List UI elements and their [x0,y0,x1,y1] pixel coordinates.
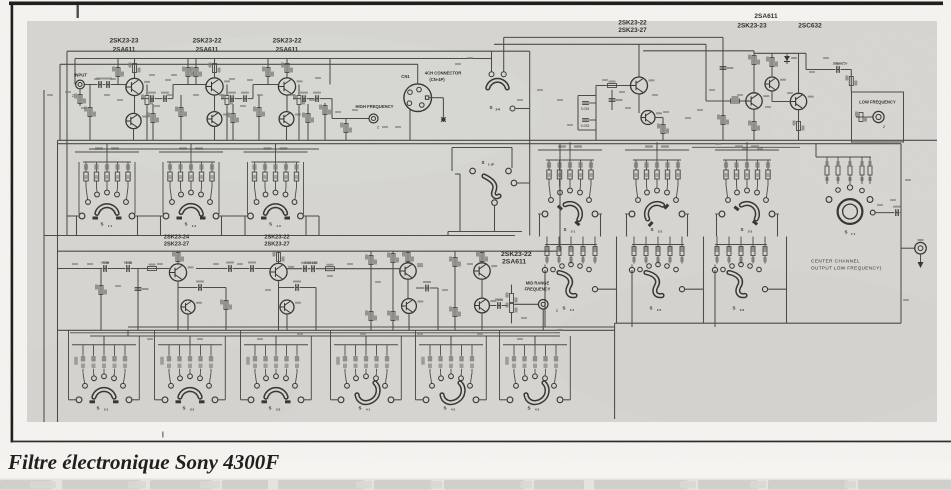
wire T7 drain [753,51,755,93]
wire bank chain link 2 [220,215,246,217]
capacitor C8 [313,92,321,102]
resistor R27 [845,76,857,86]
wire bank chain drop [318,216,320,236]
label Zout hf [377,126,380,130]
wire signal row1 c [253,84,278,86]
border frame left line [11,2,14,443]
transistor Q12 2SK23-24 [169,264,193,281]
wire bank feed [746,144,748,150]
wire [267,59,269,85]
switch S2-1 rotor feet [558,206,580,225]
label 2SK23-23 [110,38,139,45]
wire bankB out [768,288,787,290]
wire inter-row drop L [539,214,541,237]
resistor R13 [253,107,265,117]
rotary switch bank S4-2 [419,345,483,403]
switch S2-2 rotor [643,199,663,220]
border frame top line [9,2,943,6]
label S3-1 sub [104,408,109,412]
transistor Q7 2SK23-22 [631,77,655,94]
svg-text:2SA611: 2SA611 [754,13,778,20]
label S2-3 [740,227,743,232]
wire inter-row drop R [600,214,602,237]
wire mid gate line 2 [196,268,270,270]
resistor R22 [731,96,740,103]
wire bankB riser R [786,237,788,324]
wire bankB riser R [703,237,705,324]
wire signal row1 a [85,84,127,86]
wire bankC outer left [415,330,417,400]
wire ring bracket [816,156,871,158]
wire T7 source [753,109,755,140]
capacitor C14 [226,262,234,272]
switch S1-3 rotor [265,206,285,214]
node terminal dot [441,117,446,122]
wire S1-1P drop [494,205,496,231]
terminal B arrow [918,239,924,268]
label 2SA611 right [754,13,778,20]
resistor R40 [402,252,414,262]
label S7-1 sub [851,232,856,236]
wire [315,288,317,331]
switch S2-3 rotor feet [734,207,757,225]
wire [850,70,852,93]
capacitor C13 [196,281,204,291]
resistor R10 [209,63,221,73]
capacitor C20 [495,299,503,309]
wire [805,53,807,69]
wire [416,399,424,401]
wire bank feed [656,144,658,150]
wire T9 collector [798,53,800,93]
wire [187,59,189,85]
wire F1 drain [638,44,640,77]
wire inter-row drop L [626,214,628,237]
switch S1-1P rotor [484,176,499,197]
resistor R34 [273,252,285,262]
wire bankB riser R [616,237,618,324]
switch S7-1 contacts [826,185,873,203]
capacitor C1 [96,78,104,88]
resistor R25 [748,121,760,131]
label 2SC632 [798,23,822,30]
resistor R31 [95,285,107,295]
wire left section vertical [66,51,68,235]
capacitor C3 [148,92,156,102]
wire bank feed [275,144,277,152]
label 0.015 [581,107,590,111]
label 2SA611 (2) [196,47,219,54]
wire [100,269,102,331]
label 4CH CONNECTOR [425,71,461,76]
wire bank drop R [221,216,223,236]
wire ring out [875,212,901,214]
wire bankC outer right [400,336,402,400]
switch S4-1 rotor [357,383,378,403]
resistor R35 [326,264,335,271]
wire [662,118,664,141]
transistor Q19 2SA611 [475,298,497,313]
wire bankC feed [275,336,277,345]
wire left long vertical B [57,140,59,422]
wire S1-4 feed a [491,51,493,72]
transistor Q1 2SK23-23 [126,78,150,95]
label S2-5 [649,306,652,311]
rotary switch bank S4-3 [503,345,567,403]
wire S1-4 feed b [503,37,505,71]
label 2SK23-24 [164,235,190,241]
label 2SK23-22 (3) [273,38,302,45]
switch S4-3 rotor [526,383,547,403]
switch S1-2 rotor [181,206,201,215]
wire [241,399,249,401]
resistor R23 [748,55,760,65]
resistor R21 [717,115,729,125]
wire [127,330,129,336]
caption Filtre electronique Sony 4300F [7,450,279,474]
wire T9 emitter [798,110,800,141]
resistor R9 [190,67,202,77]
wire T7 gate [706,100,746,102]
wire Q3-Q4 [214,95,216,112]
wire [370,251,372,330]
label S3-1 [96,405,99,410]
wire [517,182,530,184]
wire [331,399,339,401]
diode D1 [784,53,797,64]
switch S1-2 rotor feet [177,217,206,220]
label S2-3 sub [748,229,753,233]
label MID RANGE [526,281,550,286]
rotary switch bank S2-3 [715,142,779,217]
wire bankC feed [189,336,191,345]
resistor R39 [387,311,399,321]
switch S7-1 output contact [870,210,875,215]
wire bank feed [190,144,192,152]
resistor R30 [148,264,157,271]
wire [146,105,148,140]
resistor R12 [227,113,239,123]
label S7-1 [844,230,847,235]
high frequency jack J2 [369,114,378,123]
wire bankC feed [365,336,367,345]
wire aux bus right [692,146,800,148]
wire [447,232,449,236]
wire bankC outer right [569,336,571,400]
transistor Q15 2SK23-27 [280,300,301,314]
resistor R3 [112,67,124,77]
label CN-4P [429,77,445,82]
resistor R24 [766,57,778,67]
resistor R2 [84,107,96,117]
resistor R43 [476,252,488,262]
wire [454,251,456,330]
label 1.2k [126,261,133,265]
low frequency jack J3 [873,111,884,122]
transistor Q10 2SK23-23 [765,77,786,91]
capacitor C15 [248,262,256,272]
label S4-2 [443,405,446,410]
transistor Q14 2SK23-22 [270,263,294,280]
wire cap loop bottom [578,129,596,131]
wire top rail right [504,36,723,38]
wire drain stage2 [214,59,216,78]
wire bias drop [89,85,91,141]
wire coupling row 2 [221,98,253,100]
wire left long vertical A [43,90,45,422]
rotary switch bank S1-1 [75,144,139,219]
wire mid column vertical [529,51,531,235]
paper grain overlay [27,21,937,422]
wire S1-4 out [515,108,530,110]
wire [611,90,613,110]
wire M6 emitter [408,313,410,330]
wire Q5-Q6 [286,95,288,112]
resistor R17 [302,113,314,123]
capacitor C11 [124,262,132,272]
label S1-2 sub [192,224,197,228]
wire to HF jack [331,99,333,119]
wire [479,399,486,401]
wire bankC outer right [138,336,140,400]
label 2SK23-22 mid [618,20,647,27]
wire M3 drain [278,251,280,264]
wire M8 emitter [481,313,483,330]
component value labels (illegible smudges) [47,57,911,340]
input jack J1 [76,80,85,89]
wire bankC outer right [224,336,226,400]
wire bankC feed [450,336,452,345]
label S2-1 [563,227,566,232]
label S4-2 sub [451,408,456,412]
wire M7 drain [481,251,483,263]
capacitor out [893,206,901,216]
wire [511,148,513,169]
resistor R33 [220,300,232,310]
wire right long vertical [900,144,902,324]
wire bank feed [106,144,108,152]
wire [137,269,139,331]
switch S2-6 rotor [729,273,745,296]
label OUTPUT LOW FREQ [811,266,882,271]
wire drain stage1 [134,59,136,79]
label 2SK23-22 midstage [501,251,532,258]
border frame bottom line [11,441,951,443]
wire bankC feed [103,336,105,345]
wire [226,105,228,140]
wire second rail right [494,43,706,45]
switch S3-3 rotor feet [262,400,291,403]
wire S1-1P loop top [452,147,512,149]
capacitor C4 [161,92,169,102]
resistor R28 [855,112,867,122]
wire T8 emitter [771,91,773,102]
label S1-3 sub [276,224,281,228]
wire bankC outer left [499,330,501,400]
wire [225,288,227,331]
resistor input Zin [74,94,86,104]
wire mid-right vertical [559,144,561,252]
switch S1-1P contacts [470,168,517,205]
label 2SK23-27 [164,241,189,247]
switch S1-4 contacts [489,72,506,77]
wire [258,95,260,140]
transistor Q13 2SK23-27 [181,300,202,314]
wire [298,85,300,96]
wire bankB drop L [631,270,633,327]
transistor Q4 2SA611 [207,112,229,127]
wire [226,85,228,96]
wire Q1-Q2 [134,96,136,114]
transistor Q2 2SA611 [126,113,148,128]
label 3.3u 25v [833,62,848,66]
label S2-4 [562,306,565,311]
switch S2-2 rotor feet [649,205,668,227]
wire [563,399,570,401]
center channel jack J4 [915,242,927,254]
wire to LF jack [856,116,873,118]
transistor Q6 2SA611 [279,112,301,127]
resistor array S7-1 [825,157,872,184]
capacitor C12 [135,288,149,290]
capacitor 3.3u [834,63,842,73]
wire bank drop L [160,216,162,236]
wire lower aux bus [90,335,560,337]
label 2SK23-22 (2) [193,38,222,45]
switch S2-5 rotor [646,273,662,296]
wire left vertical 2 [59,64,61,140]
label 2SK23-23 right [737,23,767,30]
label S1-4 [489,105,492,110]
wire F2 out [655,117,663,119]
wire Q2 emitter [133,129,135,141]
wire M5 source [407,279,409,298]
label 2SA611 (3) [276,47,299,54]
wire [455,173,460,175]
label HIGH FREQUENCY [356,104,394,109]
label 2SK23-27 mid [618,27,647,34]
label 2SA611 midstage [502,259,526,266]
transistor Q8 2SK23-27 [641,111,662,125]
wire bottom right drop [614,323,616,419]
wire to center jack [901,247,915,249]
wire [324,103,326,140]
wire [195,59,197,85]
wire [451,148,453,172]
label S2-2 sub [658,229,663,233]
resistor R14 [262,67,274,77]
wire [511,285,513,294]
wire mid gate line 3 [287,268,400,270]
wire [459,174,461,232]
label S1-3 [269,222,272,227]
wire [152,104,154,140]
wire bank feed [569,144,571,150]
wire [329,59,331,85]
wire connector stub [442,98,444,117]
resistor R20 [657,124,669,134]
wire [298,105,300,140]
resistor R38 [387,253,399,263]
wire M4 emitter [286,314,288,330]
wire inter-row drop R [777,214,779,237]
wire [394,399,401,401]
wire bankB out [598,288,617,290]
label S2-5 sub [657,308,662,312]
wire [69,399,77,401]
label S1-1P sub [488,162,494,166]
label 0.033 [581,124,590,128]
wire mid out [489,305,508,307]
rotary switch bank S1-3 [244,144,308,219]
switch S4-2 rotor [442,383,463,403]
label S2-6 [732,306,735,311]
capacitor C2 [104,78,112,88]
wire mid bottom bus 1 [128,326,615,328]
rotary switch bank S2-2 [625,142,689,217]
resistor R7 [175,107,187,117]
resistor R11 [221,95,233,105]
transistor Q5 2SK23-22 [278,78,302,95]
label 2SK23-22 mid2 [264,235,289,241]
resistor R18 [319,105,331,115]
wire main bus lower [58,143,902,145]
wire [180,95,182,140]
transistor Q11 2SC632 [790,93,813,109]
registration tick [77,5,79,18]
rotary switch bank S2-5 [629,237,684,273]
switch S1-4 rotor [488,80,507,88]
resistor R6 [147,113,159,123]
switch S2-5 output contact [679,287,684,292]
resistor R4 [129,63,141,73]
switch S1-1 rotor feet [93,217,122,220]
wire [218,399,225,401]
wire [511,312,513,323]
wire connector bottom [409,110,411,140]
label S1-1 sub [108,224,113,228]
switch S3-1 rotor [94,389,114,397]
wire output stage top rail [754,52,806,54]
wire bank chain link 3 [305,215,320,217]
wire feedback 3 [416,287,438,289]
wire S1-1P bus [448,231,522,233]
wire cap loop left [577,96,579,131]
wire [74,59,76,85]
resistor R41 [449,257,461,267]
wire bankC feed [534,336,536,345]
wire rail to connector [60,63,418,65]
label 2SK23-27 mid2 [264,241,289,247]
capacitor C10 [101,262,109,272]
mid range jack J5 [538,300,548,310]
rotary switch bank S2-4 [542,237,597,273]
label FREQUENCY [525,287,551,292]
connector CN1 body [404,84,432,112]
wire bank chain link 0 [67,215,77,217]
rotary switch bank S4-1 [334,345,398,403]
capacitor small [609,99,623,101]
wire mid gate line 1 [58,268,170,270]
capacitor C6 [241,92,249,102]
rotary switch bank S3-1 [72,345,136,403]
label S3-3 [268,405,271,410]
wire input ground [79,89,81,106]
resistor R44 [506,293,518,303]
resistor R19 300 [340,123,352,133]
wire feedback 2 [279,287,317,289]
wire hf ground [345,119,347,141]
